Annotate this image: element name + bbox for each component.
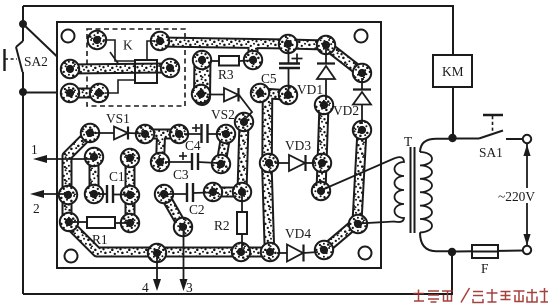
copper trace top bus with R3 stub — [160, 42, 362, 73]
pad T secondary bottom — [349, 215, 367, 233]
transformer T — [324, 139, 452, 251]
junction node A — [448, 134, 456, 142]
relay coil KM — [433, 55, 472, 87]
svg-text:R2: R2 — [214, 218, 230, 233]
svg-text:~220V: ~220V — [498, 189, 535, 204]
pad lead-out 4 — [148, 244, 166, 262]
copper trace C5 bottom L — [258, 93, 288, 252]
pad relay K pin 1 — [88, 31, 106, 49]
svg-text:KM: KM — [442, 64, 464, 79]
pad VS1 anode / ring top — [81, 124, 99, 142]
svg-text:R3: R3 — [218, 67, 234, 82]
PCB board outline — [57, 22, 381, 268]
pad VD2 anode — [353, 121, 371, 139]
terminal AC bottom — [523, 246, 531, 254]
wire bottom bus — [23, 252, 452, 294]
copper trace C1-R1 vertical — [125, 158, 136, 223]
copper trace C2 left diagonal — [164, 194, 183, 227]
pad C2 right — [204, 183, 222, 201]
svg-text:T: T — [404, 134, 412, 149]
primary top lead — [420, 139, 452, 152]
pad VS1 cathode — [136, 125, 154, 143]
pad lead-out 2 — [59, 186, 77, 204]
junction node B — [448, 248, 456, 256]
leader line K — [110, 52, 122, 69]
wire KM to node A — [452, 87, 454, 138]
junction dot SA2 bottom — [19, 88, 27, 96]
pad VD4 cathode — [315, 241, 333, 259]
pad C1 left — [85, 185, 103, 203]
relay K body — [135, 60, 157, 83]
thyristor VS2 — [207, 88, 252, 119]
resistor R2 — [237, 196, 247, 248]
capacitor C1 — [98, 185, 126, 203]
pad VS2 cathode — [235, 113, 253, 131]
pads group — [59, 31, 371, 262]
wire left bus — [22, 6, 24, 41]
pad lead-out 1 — [85, 148, 103, 166]
svg-text:VD3: VD3 — [285, 138, 311, 153]
pad VS2 anode — [192, 85, 210, 103]
svg-text:C2: C2 — [189, 202, 205, 217]
primary winding — [420, 152, 432, 232]
pad R3 right — [244, 51, 262, 69]
pad SA2 return left — [61, 84, 79, 102]
copper trace SA2 to relay — [70, 68, 170, 69]
lead-out arrow 1 — [31, 142, 92, 163]
diode VD1 — [317, 49, 335, 100]
svg-text:F: F — [481, 261, 488, 276]
diode VD4 — [277, 245, 318, 262]
svg-text:VD2: VD2 — [333, 103, 359, 118]
wire top bus — [23, 6, 453, 55]
copper trace SA2 lower dumbbell — [70, 88, 99, 99]
pad R2 top junction — [233, 183, 251, 201]
pad R2 bottom — [232, 243, 250, 261]
pad VD1 cathode — [317, 36, 335, 54]
resistor R3 — [210, 56, 250, 66]
switch SA2 — [5, 41, 24, 72]
pad C5 bottom — [279, 86, 297, 104]
pad VD4 anode / ring end — [261, 243, 279, 261]
copper trace VS1-C4-C3 T-shape — [145, 134, 179, 162]
pad node C5 bottom left — [251, 84, 269, 102]
svg-text:VS2: VS2 — [211, 107, 235, 122]
relay K dashed outline — [87, 29, 185, 106]
svg-text:VS1: VS1 — [106, 111, 130, 126]
pad VD1 anode — [315, 96, 333, 114]
copper trace arrow1-C1 dumbbell — [89, 157, 100, 194]
mounting hole bottom-left — [65, 250, 78, 263]
AC source arrows — [523, 144, 530, 246]
core — [410, 147, 412, 233]
diode VD3 — [275, 155, 316, 171]
svg-text:C3: C3 — [173, 167, 189, 182]
wire left bus lower — [22, 72, 24, 294]
copper trace C2 right horizontal — [213, 187, 242, 198]
svg-text:3: 3 — [186, 280, 193, 295]
pad C4 left — [170, 125, 188, 143]
copper trace VS2 vertical — [242, 122, 244, 192]
pad R3 left — [193, 51, 211, 69]
terminal AC top — [523, 135, 531, 143]
pad node top — [121, 149, 139, 167]
svg-text:K: K — [123, 38, 133, 53]
relay K pin wires — [103, 40, 154, 93]
pad relay K coil right — [161, 59, 179, 77]
wire SA2 lower horizontal to pad — [23, 92, 68, 94]
pad C5 top — [279, 35, 297, 53]
svg-text:C1: C1 — [109, 169, 125, 184]
fuse F — [456, 245, 523, 258]
svg-text:SA2: SA2 — [24, 54, 48, 69]
pad relay K pin 2 / top bus end — [151, 32, 169, 50]
svg-text:C5: C5 — [261, 71, 277, 86]
pad C1 right — [121, 186, 139, 204]
junction dot SA2 top — [19, 20, 27, 28]
mounting hole bottom-right — [359, 247, 372, 260]
lead-out arrow 3 — [180, 231, 194, 295]
pad R1 right — [121, 214, 139, 232]
pad R1 left — [60, 213, 78, 231]
copper trace VD1-VD3 vertical — [321, 105, 324, 191]
pad SA2 wire in — [61, 60, 79, 78]
secondary winding with lead wires to PCB pads — [324, 157, 404, 223]
svg-text:VD1: VD1 — [297, 82, 323, 97]
pushbutton SA1 — [479, 115, 522, 139]
svg-text:1: 1 — [31, 142, 38, 157]
copper trace center blob — [193, 59, 212, 97]
pad lead-out 3 — [174, 218, 192, 236]
lead-out arrow 2 — [30, 190, 66, 216]
pad T secondary top — [312, 182, 330, 200]
mounting hole top-right — [355, 30, 368, 43]
lead-out arrow 4 — [142, 257, 161, 295]
pad C3 left — [151, 153, 169, 171]
pad SA2 return right — [90, 84, 108, 102]
svg-text:2: 2 — [33, 201, 40, 216]
svg-text:R1: R1 — [92, 232, 108, 247]
primary bottom lead — [420, 232, 452, 251]
svg-text:VD4: VD4 — [285, 226, 311, 241]
mounting hole top-left — [62, 30, 75, 43]
capacitor C5 — [279, 48, 303, 91]
svg-text:C4: C4 — [185, 138, 201, 153]
diode VD2 — [353, 78, 371, 124]
svg-text:4: 4 — [142, 280, 149, 295]
capacitor C4 — [184, 124, 221, 143]
capacitor C2 — [169, 183, 209, 202]
pad VD2 cathode — [353, 64, 371, 82]
pad VD3 cathode — [313, 154, 331, 172]
copper trace ground ring — [67, 133, 269, 252]
copper trace C4-C3 right dumbbell — [221, 134, 226, 164]
resistor R1 — [73, 217, 126, 228]
pad C4 right — [217, 125, 235, 143]
pad C3 right — [212, 155, 230, 173]
capacitor C3 — [165, 152, 217, 170]
pad VD3 anode — [260, 154, 278, 172]
pad C2 left — [155, 185, 173, 203]
wire node A to SA1 — [452, 138, 479, 140]
thyristor VS1 — [96, 127, 141, 140]
svg-text:SA1: SA1 — [479, 145, 503, 160]
wire SA2 diagonal to pad — [23, 24, 69, 68]
copper trace VD2-VD4 vertical — [324, 130, 362, 250]
watermark — [413, 288, 548, 303]
